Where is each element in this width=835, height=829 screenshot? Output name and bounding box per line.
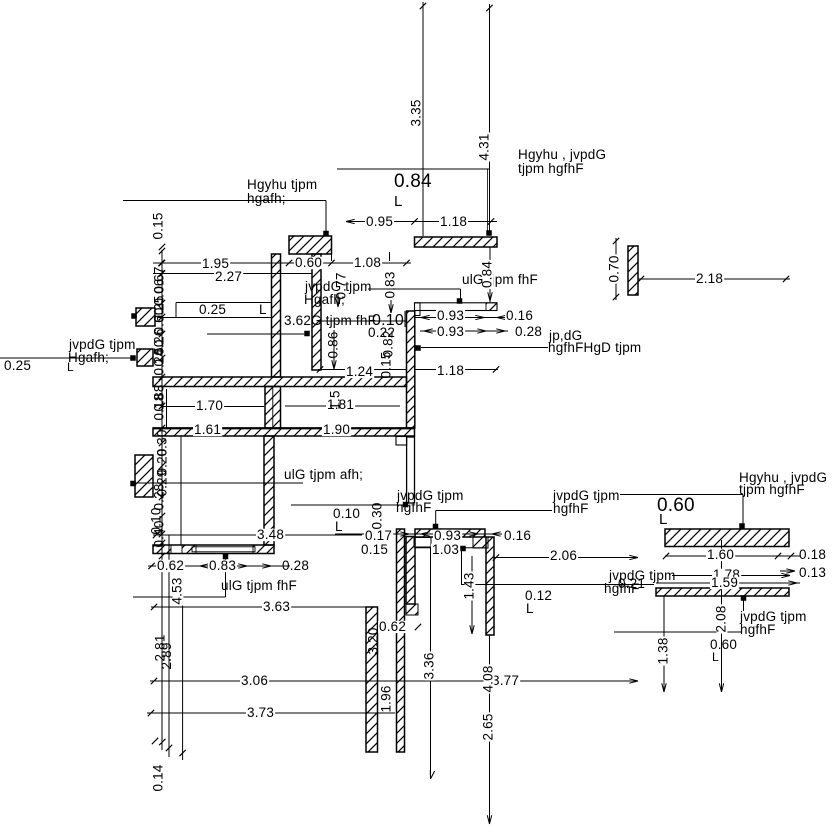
label 3.35 <box>412 98 423 127</box>
label 1.43 <box>465 571 476 600</box>
bracket 0.10 mid <box>404 311 406 327</box>
label 0.62 center <box>378 621 407 633</box>
svg-text:0.84: 0.84 <box>394 171 432 192</box>
svg-text:2.06: 2.06 <box>550 548 577 563</box>
dim line 4.31 vertical <box>489 4 491 231</box>
node dot S3 <box>130 481 136 487</box>
leader 3.62 <box>207 333 304 335</box>
node square on right wall <box>415 345 421 351</box>
node square 3.62 <box>304 331 310 337</box>
label 1.24 <box>345 366 374 378</box>
svg-text:Hgyhu , jvpdG: Hgyhu , jvpdG <box>518 147 606 162</box>
bottom wall right strip <box>406 537 415 605</box>
svg-text:L: L <box>67 360 74 374</box>
roof line y169 <box>337 168 490 170</box>
svg-text:2.65: 2.65 <box>481 713 496 740</box>
svg-text:L: L <box>335 519 343 534</box>
svg-text:1.08: 1.08 <box>354 255 381 270</box>
svg-text:1.03: 1.03 <box>432 542 459 557</box>
dim line 1.24 <box>318 369 406 371</box>
label 1.08 <box>353 257 382 269</box>
bottom right wall R1 <box>486 537 494 635</box>
svg-text:4.08: 4.08 <box>481 665 496 692</box>
label 0.60 top <box>294 257 323 269</box>
label 4.31 <box>480 132 491 161</box>
dim line 4.08-2.65 vertical <box>489 635 491 824</box>
wall section top-center small beam <box>289 236 332 254</box>
svg-text:0.62: 0.62 <box>157 558 184 573</box>
svg-text:0.30: 0.30 <box>370 502 385 529</box>
node dot 1.03 <box>460 546 466 552</box>
svg-text:hgafh;: hgafh; <box>247 191 286 206</box>
svg-text:0.18: 0.18 <box>799 547 826 562</box>
dim line 1.81 <box>285 405 400 407</box>
label 0.93 upper <box>436 310 465 322</box>
dim line 0.83 arrow <box>390 300 392 313</box>
svg-text:0.28: 0.28 <box>152 483 167 510</box>
svg-text:0.62: 0.62 <box>379 619 406 634</box>
dim line 3.62 to wall <box>319 320 406 322</box>
svg-text:2.89: 2.89 <box>159 642 174 669</box>
label 1.18 mid <box>436 365 465 377</box>
svg-text:1.43: 1.43 <box>462 572 477 599</box>
dim line 1.95-0.60-1.08 <box>153 262 411 264</box>
svg-text:tjpm hgfhF: tjpm hgfhF <box>739 482 805 497</box>
floor slab 2 <box>153 428 415 436</box>
svg-text:1.90: 1.90 <box>323 422 350 437</box>
label 0.16 upper <box>505 310 534 322</box>
svg-text:0.70: 0.70 <box>607 255 622 282</box>
wall section top-right thin beam <box>415 237 498 247</box>
svg-text:0.84: 0.84 <box>480 261 495 288</box>
column lower segment <box>264 436 274 545</box>
right wall lower segment <box>407 437 415 503</box>
svg-text:ulG tjpm afh;: ulG tjpm afh; <box>284 467 363 482</box>
label 0.93 second <box>436 326 465 338</box>
svg-text:0.13: 0.13 <box>799 565 826 580</box>
label 1.03 <box>431 544 460 556</box>
leader jvpdG right-mid to plate <box>436 510 552 512</box>
svg-text:1.18: 1.18 <box>440 214 467 229</box>
svg-text:0.95: 0.95 <box>366 214 393 229</box>
label 1.18 top <box>439 216 468 228</box>
svg-text:Hgyhu tjpm: Hgyhu tjpm <box>247 177 317 192</box>
dim line 0.93-0.28 lower <box>420 330 508 332</box>
svg-text:tjpm hgfhF: tjpm hgfhF <box>518 161 584 176</box>
bottom left wall L2 <box>397 529 405 752</box>
node dot on plate P1 <box>433 524 439 530</box>
label 0.62 left <box>156 560 185 572</box>
svg-text:0.60: 0.60 <box>295 255 322 270</box>
svg-text:hgfhF: hgfhF <box>553 501 589 516</box>
column under top beam <box>312 254 321 370</box>
svg-text:1.5: 1.5 <box>328 390 343 409</box>
extension line x461 <box>461 551 463 586</box>
svg-text:0.83: 0.83 <box>383 271 398 298</box>
label 3.77 <box>491 675 520 687</box>
arrow 0.13 <box>786 571 795 573</box>
dim line 2.08 vertical <box>721 540 723 692</box>
dim line 1.03 <box>415 547 487 549</box>
tick 0.62 center <box>415 624 421 630</box>
svg-text:3.20: 3.20 <box>366 627 381 654</box>
svg-text:1.38: 1.38 <box>656 637 671 664</box>
right wall upper segment <box>407 311 415 428</box>
dim line 3.48 <box>153 534 362 536</box>
dim line 0.84 vertical <box>489 247 491 302</box>
floor slab 1 <box>153 377 407 387</box>
dim line 3.35 vertical <box>422 2 424 236</box>
label 3.73 <box>246 707 275 719</box>
svg-text:hgfhF: hgfhF <box>740 622 776 637</box>
bottom assembly right step <box>473 537 488 548</box>
svg-text:3.73: 3.73 <box>247 705 274 720</box>
left vertical line 2.89 <box>168 535 170 757</box>
svg-text:1.24: 1.24 <box>346 364 373 379</box>
column upper segment <box>272 254 281 377</box>
svg-text:0.15: 0.15 <box>379 351 394 378</box>
svg-text:0.16: 0.16 <box>506 308 533 323</box>
dim line 3.73 <box>147 712 395 714</box>
svg-text:0.83: 0.83 <box>209 558 236 573</box>
svg-text:3.77: 3.77 <box>492 673 519 688</box>
svg-text:0.28: 0.28 <box>282 558 309 573</box>
label 0.95 <box>365 216 394 228</box>
leader jvpdG left <box>0 357 131 359</box>
label 0.17 <box>364 530 393 542</box>
svg-text:1.61: 1.61 <box>194 422 221 437</box>
node dot on shelf plate <box>457 298 463 304</box>
dim line 1.78 <box>672 575 790 577</box>
svg-text:1.18: 1.18 <box>437 363 464 378</box>
left chain line <box>161 250 163 750</box>
dim line 1.43 vertical <box>471 556 473 634</box>
wall section right small pier 0.70 <box>628 246 638 295</box>
floor slab 2 right step <box>396 437 407 446</box>
svg-text:0.15: 0.15 <box>361 542 388 557</box>
room B left edge <box>180 436 182 545</box>
leader ulG bottom-left <box>225 558 227 597</box>
label 2.06 <box>549 550 578 562</box>
left vertical line 4.53 <box>182 597 184 760</box>
dim line 1.59 <box>656 582 800 584</box>
svg-text:3.62: 3.62 <box>284 313 311 328</box>
label 2.65 <box>484 712 495 741</box>
dim line 1.70 <box>163 406 264 408</box>
svg-text:2.27: 2.27 <box>215 269 242 284</box>
svg-text:3.63: 3.63 <box>263 599 290 614</box>
svg-text:hgfhFHgD tjpm: hgfhFHgD tjpm <box>548 340 641 355</box>
label 0.16 bottom <box>503 530 532 542</box>
dim line 1.18 mid <box>415 369 498 371</box>
leader Hgyhu top-left <box>123 200 326 202</box>
svg-text:0.16: 0.16 <box>504 528 531 543</box>
small pier S1 left <box>136 308 155 326</box>
svg-text:4.31: 4.31 <box>477 133 492 160</box>
small pier S2 left <box>137 349 153 366</box>
label 1.60 <box>706 549 735 561</box>
label 3.63 <box>262 601 291 613</box>
node dot on D2 <box>741 595 747 601</box>
svg-text:1.96: 1.96 <box>379 685 394 712</box>
label 3.36 <box>425 651 436 680</box>
svg-text:0.40: 0.40 <box>152 520 167 547</box>
label 0.70 <box>610 254 621 283</box>
floor slab 3 hatch a <box>153 545 171 554</box>
svg-text:0.28: 0.28 <box>515 324 542 339</box>
svg-text:4.53: 4.53 <box>170 577 185 604</box>
label 2.08 <box>717 604 728 633</box>
svg-text:1.59: 1.59 <box>711 575 738 590</box>
label 0.22 <box>367 327 396 339</box>
svg-text:3.06: 3.06 <box>241 673 268 688</box>
label 1.70 <box>195 400 224 412</box>
label 2.18 <box>695 273 724 285</box>
column middle segment double <box>265 387 281 429</box>
label 3.48 <box>256 529 285 541</box>
svg-text:0.21: 0.21 <box>618 576 645 591</box>
label 0.84 rot <box>483 260 494 289</box>
svg-text:ulG tjpm fhF: ulG tjpm fhF <box>462 272 538 287</box>
dim line 3.06-3.77 <box>150 680 638 682</box>
label 0.15 bottom <box>360 544 389 556</box>
pier S3 left <box>135 455 153 497</box>
arrow 0.77 bottom <box>337 294 339 307</box>
svg-text:0.86: 0.86 <box>326 331 341 358</box>
svg-text:ulG tjpm fhF: ulG tjpm fhF <box>221 578 297 593</box>
label 0.93 bottom <box>433 530 462 542</box>
right beam D1 <box>665 529 789 547</box>
label 1.78 <box>712 569 741 581</box>
floor slab 3 hatch b <box>182 545 196 554</box>
leader ulG afh <box>133 482 303 484</box>
leader jvpdG mid <box>368 288 461 290</box>
dim line 1.38 vertical <box>663 596 665 692</box>
svg-text:0.24: 0.24 <box>152 348 167 375</box>
leader hgfhF right y632 <box>614 631 741 633</box>
node dot S1 <box>131 313 137 319</box>
svg-text:2.18: 2.18 <box>696 271 723 286</box>
floor slab 3 outline <box>153 545 274 554</box>
dim line 2.18 <box>638 278 790 280</box>
dim line 0.93-0.16 upper <box>415 317 506 319</box>
dim line 2.27 <box>153 273 312 275</box>
svg-text:L: L <box>259 302 267 317</box>
dim line 1.60 <box>665 555 800 557</box>
label 1.95 <box>201 258 230 270</box>
wall step outline 0.25L <box>176 302 271 304</box>
shelf plate right hatch <box>486 303 497 311</box>
right beam D2 <box>656 588 789 596</box>
svg-text:L: L <box>526 601 534 616</box>
dim line 2.06 <box>494 557 638 559</box>
node dot on D1 <box>739 523 745 529</box>
node dot 4.31 <box>486 230 492 236</box>
svg-text:L: L <box>394 193 403 210</box>
svg-text:0.17: 0.17 <box>365 528 392 543</box>
label 0.83 bottom <box>208 560 237 572</box>
label 0.28 right <box>514 326 543 338</box>
svg-text:hgfhF: hgfhF <box>396 500 432 515</box>
bottom assembly inner plate <box>414 538 431 548</box>
label 1.59 <box>710 577 739 589</box>
svg-text:G tjpm fhF: G tjpm fhF <box>311 313 376 328</box>
svg-text:3.48: 3.48 <box>257 527 284 542</box>
label 4.08 <box>484 664 495 693</box>
label 2.27 <box>214 271 243 283</box>
leader jp,dG <box>421 347 548 349</box>
svg-text:0.15: 0.15 <box>151 212 166 239</box>
svg-text:0.18: 0.18 <box>152 393 167 420</box>
label 1.61 <box>193 424 222 436</box>
dim line 0.70 vertical <box>615 238 617 300</box>
dim line 0.62-0.83-0.28 <box>148 565 290 567</box>
bottom wall foot <box>406 604 418 615</box>
label 3.06 <box>240 675 269 687</box>
leader jvpdG bottom-center <box>291 504 404 506</box>
svg-text:2.08: 2.08 <box>714 605 729 632</box>
label 4.53 <box>173 576 184 605</box>
svg-text:1.60: 1.60 <box>707 547 734 562</box>
svg-text:0.25: 0.25 <box>4 358 31 373</box>
leader hgfhF y584 <box>461 584 654 586</box>
label 1.38 <box>659 636 670 665</box>
bottom assembly top plate <box>415 529 485 537</box>
svg-text:0.93: 0.93 <box>437 324 464 339</box>
svg-text:3.35: 3.35 <box>409 99 424 126</box>
shelf plate left block <box>415 303 421 316</box>
svg-text:0.14: 0.14 <box>151 764 166 791</box>
room A left edge <box>166 389 168 428</box>
floor slab 3 inner ledge <box>192 547 255 552</box>
svg-text:0.93: 0.93 <box>434 528 461 543</box>
svg-text:0.93: 0.93 <box>437 308 464 323</box>
leader Hgyhu right <box>620 494 743 496</box>
dim line 0.86 vertical <box>333 330 335 370</box>
dim line 0.17-0.93-0.16 <box>335 533 502 535</box>
dim line 3.36 vertical <box>430 547 432 779</box>
label 1.90 <box>322 424 351 436</box>
label 1.81 <box>326 399 355 411</box>
node dot S2 <box>130 355 136 361</box>
shelf plate outline <box>415 303 498 311</box>
svg-text:0.25: 0.25 <box>199 302 226 317</box>
floor slab 3 hatch c <box>253 545 274 554</box>
svg-text:0.77: 0.77 <box>334 272 349 299</box>
node dot right wall bottom <box>403 502 409 508</box>
node dot on top beam <box>323 231 329 237</box>
svg-text:L: L <box>659 511 668 528</box>
left chain tick 0.15 <box>159 244 165 250</box>
leader stub D2 dot <box>743 598 745 611</box>
svg-text:1.70: 1.70 <box>196 398 223 413</box>
dim line 3.63 <box>151 606 377 608</box>
svg-text:L: L <box>712 650 719 664</box>
svg-text:3.36: 3.36 <box>422 652 437 679</box>
node dot below slab3 <box>223 554 229 560</box>
bottom left wall L1 <box>366 607 378 752</box>
dim line 0.95-1.18 <box>346 221 497 223</box>
